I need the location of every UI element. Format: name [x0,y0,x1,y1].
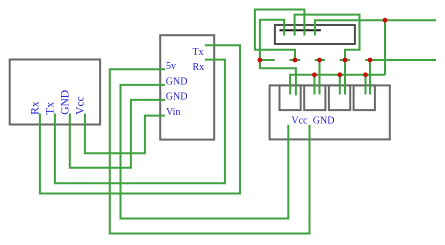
wire header pin3 drop to T2 [319,60,321,95]
svg-text:GND: GND [60,90,72,115]
wire bus row drop to T2 [313,75,315,95]
wire left-box Rx to middle-box Tx [40,45,240,193]
wire header pin4 drop to T3 [344,60,346,95]
header pin4 stub [340,59,350,61]
wire header pin1 jog to terminal T1 [260,60,296,95]
wire header pin1 to J1 pad1 [260,20,284,60]
svg-text:Vcc: Vcc [75,96,87,115]
junction dot bus T3 [337,72,342,77]
wire header pin5 drop to T4 [369,60,371,95]
junction dot bus T4 [363,72,368,77]
wire left-box Tx to middle-box Rx [55,60,225,184]
wire bus row drop to T4 [365,75,367,95]
bus bar line inside J1 [280,29,321,31]
header pin3 stub [315,59,325,61]
svg-text:5v: 5v [166,61,176,72]
terminal square T3 [329,85,350,110]
header pin2 stub [289,59,300,61]
junction dot pin1 [258,58,263,63]
junction dot pin5 [368,58,373,63]
left module box U1 [10,60,100,125]
wire bus row to terminal T1 left [290,75,385,95]
svg-text:Vin: Vin [166,107,180,118]
wire left-box Vcc to middle-box Vin [85,114,165,154]
junction dot pin3 [317,58,322,63]
junction dot pin4 [343,58,348,63]
svg-text:GND: GND [166,91,188,102]
middle module box U2 [160,35,214,139]
junction dot bus T2 [312,72,317,77]
svg-text:Vcc: Vcc [291,116,308,127]
header component J1 (top right rectangle) [275,25,355,44]
wire node A drop to bus row [384,20,386,75]
svg-text:Tx: Tx [45,102,57,115]
terminal square T1 [280,85,301,110]
svg-text:Tx: Tx [193,47,204,58]
wire header pin5 to right rail [365,59,436,61]
wire header pin4 to J1 pad2 [295,15,360,60]
svg-text:Rx: Rx [30,101,42,115]
junction dot pin2 [293,58,298,63]
terminal square T4 [354,85,375,110]
svg-text:GND: GND [166,77,188,88]
wire J1 pad4 to right rail [315,20,436,35]
right module box U3 (relay board) [270,85,390,139]
wire middle-box GND to right-box Vcc [121,85,289,219]
wire left-box GND to middle-box GND [70,100,165,168]
svg-text:Rx: Rx [193,62,205,73]
wire bus row drop to T3 [339,75,341,95]
wire middle-box 5v to right-box GND [110,69,310,233]
header pin1 stub [260,59,275,61]
terminal square T2 [304,85,325,110]
svg-text:GND: GND [313,116,335,127]
wire header pin2 to J1 pad3 [255,10,305,61]
junction dot node A [383,18,388,23]
